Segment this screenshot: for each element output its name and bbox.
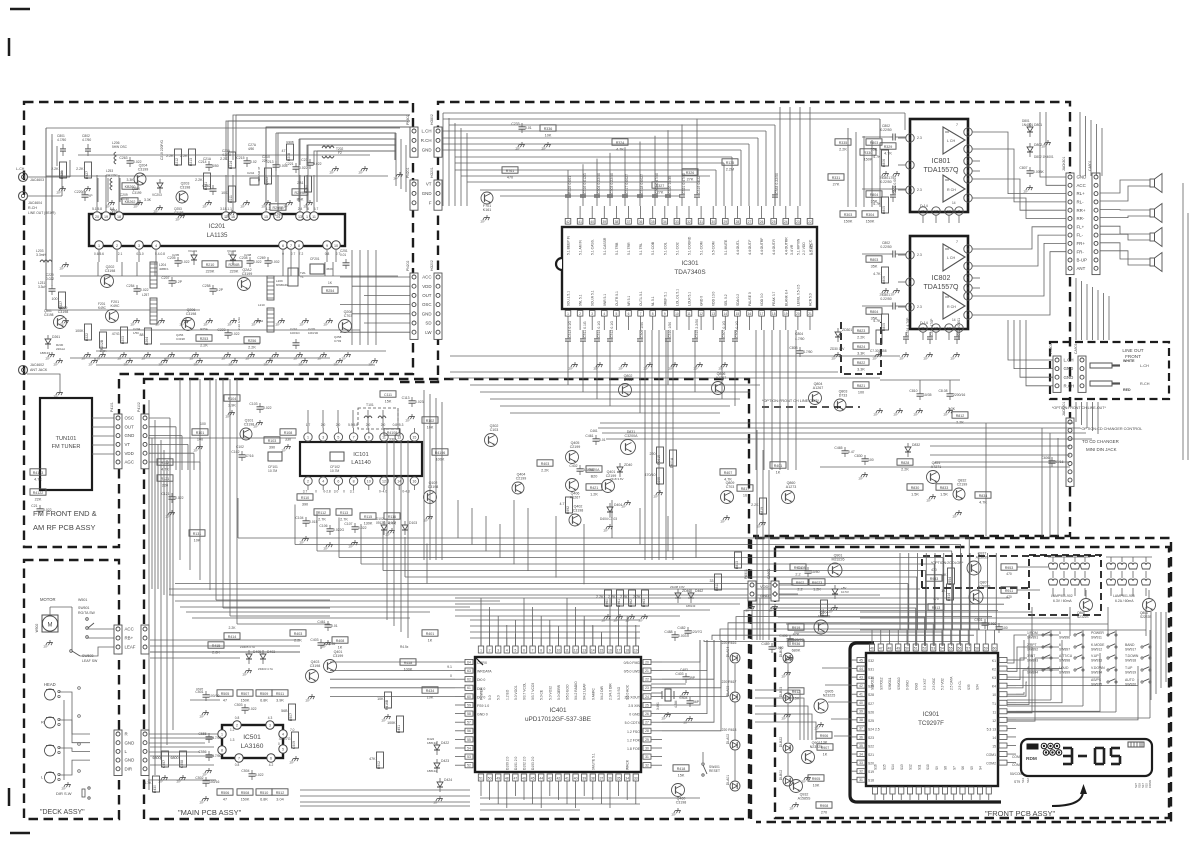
wire <box>237 498 239 538</box>
wire <box>760 598 1010 640</box>
svg-text:D802 1N4001: D802 1N4001 <box>1034 155 1054 159</box>
svg-text:47: 47 <box>879 647 883 651</box>
capacitor C465 <box>842 450 849 452</box>
diode D802 <box>1027 147 1033 152</box>
transistor Q905 <box>814 699 828 713</box>
connector JACK801 <box>1066 173 1074 275</box>
svg-text:20°: 20° <box>44 645 49 649</box>
IC801 pin 10 <box>945 207 953 215</box>
svg-text:3.3/255: 3.3/255 <box>583 468 594 472</box>
board outline LINE OUT FRONT <box>1050 342 1169 399</box>
svg-text:27K: 27K <box>833 182 840 186</box>
svg-text:14: 14 <box>952 201 956 205</box>
ground <box>1047 140 1049 143</box>
svg-text:RG/TA SW: RG/TA SW <box>78 611 96 615</box>
svg-text:3.9K: 3.9K <box>228 403 236 407</box>
capacitor C113 <box>409 400 416 402</box>
svg-text:C489: C489 <box>761 642 769 646</box>
IC301 pin 3 <box>589 311 595 317</box>
svg-text:S12: S12 <box>909 764 913 770</box>
resistor R9615 <box>657 447 664 463</box>
ground <box>234 358 236 361</box>
wire <box>917 553 919 630</box>
ground <box>787 712 789 715</box>
IC901 right pin 12 <box>999 760 1007 765</box>
svg-text:3: 3 <box>497 649 499 653</box>
svg-text:0.01: 0.01 <box>340 253 346 257</box>
wire <box>470 384 760 386</box>
svg-text:4.7K: 4.7K <box>161 467 169 471</box>
wires far right margin <box>1182 183 1184 460</box>
svg-text:COM1: COM1 <box>986 753 996 757</box>
ground <box>102 352 104 355</box>
svg-text:VC202: VC202 <box>227 249 237 253</box>
wire <box>639 346 641 413</box>
svg-text:*OPTION:2COLOR*: *OPTION:2COLOR* <box>931 561 964 565</box>
capacitor C319 <box>694 194 700 196</box>
wire <box>316 178 318 202</box>
IC801 pin 6 <box>964 175 972 183</box>
svg-text:10K: 10K <box>377 697 384 701</box>
svg-text:5.1 COM: 5.1 COM <box>700 241 704 255</box>
svg-text:C314 0.1G: C314 0.1G <box>597 321 601 338</box>
svg-text:C102: C102 <box>231 450 239 454</box>
svg-text:0: 0 <box>343 490 345 494</box>
svg-text:GND: GND <box>125 740 135 745</box>
svg-text:X401: X401 <box>656 702 660 710</box>
connector PA901 <box>748 581 756 601</box>
capacitor C254 <box>134 288 141 290</box>
svg-text:4500AM 47: 4500AM 47 <box>257 166 261 182</box>
svg-text:20°: 20° <box>434 801 439 805</box>
svg-text:1.2K: 1.2K <box>813 587 821 591</box>
svg-text:C810: C810 <box>909 389 917 393</box>
wire <box>609 638 611 646</box>
svg-text:DLB22: DLB22 <box>779 737 783 747</box>
IC901 bottom pin 8 <box>942 787 947 794</box>
svg-text:10K: 10K <box>275 212 282 216</box>
svg-text:R329: R329 <box>884 145 893 149</box>
svg-text:S36/O13: S36/O13 <box>871 677 875 690</box>
wire <box>532 607 534 646</box>
svg-text:20°: 20° <box>200 715 205 719</box>
resistor R256 <box>244 337 260 343</box>
svg-text:AUTO: AUTO <box>1125 678 1135 682</box>
wire <box>266 127 410 160</box>
wire <box>300 789 470 791</box>
wire <box>314 151 396 165</box>
IC901 pin 39 <box>857 709 865 714</box>
resistor R135 <box>722 159 738 165</box>
svg-text:SW501: SW501 <box>78 606 90 610</box>
svg-text:1K: 1K <box>942 573 947 577</box>
lamp pair L1-2 <box>1060 563 1069 569</box>
wires LED column <box>734 664 736 692</box>
IC401 pin 31 <box>643 754 651 759</box>
ground <box>287 444 289 447</box>
svg-text:2.2M: 2.2M <box>726 167 734 171</box>
ground <box>429 514 431 517</box>
svg-text:R821: R821 <box>857 384 866 388</box>
ground <box>878 352 880 355</box>
wire <box>825 684 851 686</box>
svg-text:20°: 20° <box>900 357 905 361</box>
IC401 pin 26 <box>643 711 651 716</box>
IC901 right pin 8 <box>999 726 1007 731</box>
ground <box>774 604 776 607</box>
wire <box>364 294 410 296</box>
svg-text:51: 51 <box>914 647 918 651</box>
transistor Q851 <box>927 471 940 484</box>
svg-text:IC802: IC802 <box>932 275 951 282</box>
svg-text:56P: 56P <box>693 700 700 704</box>
svg-text:9: 9 <box>664 312 666 316</box>
svg-text:33: 33 <box>675 220 679 224</box>
svg-text:7: 7 <box>532 649 534 653</box>
svg-text:4.7K: 4.7K <box>34 477 42 481</box>
svg-text:55: 55 <box>949 647 953 651</box>
svg-text:V.UP: V.UP <box>1091 654 1099 658</box>
diode D405 <box>246 654 252 659</box>
wire <box>480 797 700 799</box>
resistor R905 <box>808 775 824 781</box>
svg-text:R511: R511 <box>276 692 284 696</box>
svg-text:S28: S28 <box>868 693 874 697</box>
svg-text:6: 6 <box>1059 643 1061 647</box>
wire <box>980 235 1066 266</box>
svg-text:C483: C483 <box>680 668 688 672</box>
wire <box>540 638 542 646</box>
IC802 pin 12 <box>932 324 940 332</box>
wire <box>1081 402 1083 425</box>
svg-text:ZD46: ZD46 <box>682 589 690 593</box>
speaker SP1 <box>1150 179 1155 187</box>
diode D102 <box>381 525 387 530</box>
svg-text:0.023: 0.023 <box>415 400 424 404</box>
ground <box>364 166 366 169</box>
svg-text:CA903: CA903 <box>1074 344 1078 354</box>
wire <box>755 706 808 740</box>
svg-text:20°: 20° <box>669 367 674 371</box>
svg-text:2.2K: 2.2K <box>294 638 302 642</box>
wire <box>752 604 1004 640</box>
resistor R811 <box>715 574 722 590</box>
svg-text:0.003K: 0.003K <box>1033 170 1044 174</box>
IC101 pin 8 <box>349 477 357 485</box>
svg-text:0.022: 0.022 <box>299 166 308 170</box>
diode ZD40 <box>617 467 623 472</box>
RCA jack JAC4603 <box>19 173 28 182</box>
wire <box>382 531 384 571</box>
svg-text:IC901: IC901 <box>923 711 940 718</box>
wire <box>435 398 437 560</box>
svg-text:20°: 20° <box>304 205 309 209</box>
LED DLB03 <box>783 693 793 703</box>
wire <box>1008 320 1053 360</box>
IC401 pin 43 <box>547 774 552 781</box>
svg-text:13: 13 <box>582 649 586 653</box>
svg-text:2.2: 2.2 <box>795 572 800 576</box>
transistor Q209 <box>54 316 67 329</box>
svg-text:R407: R407 <box>724 471 733 475</box>
svg-text:LA1140: LA1140 <box>351 460 371 466</box>
IC IC201 LA1135 <box>89 214 345 246</box>
svg-text:13: 13 <box>298 215 302 219</box>
svg-text:7: 7 <box>290 244 292 248</box>
svg-text:2.3: 2.3 <box>917 305 922 309</box>
wire <box>442 149 741 151</box>
svg-text:4.7K: 4.7K <box>873 272 881 276</box>
ground <box>834 605 836 608</box>
svg-text:DLB04: DLB04 <box>779 647 783 657</box>
svg-text:C121: C121 <box>161 492 169 496</box>
resistor R592 <box>566 497 573 513</box>
svg-text:40: 40 <box>574 777 578 781</box>
wire <box>1149 630 1151 718</box>
IC802 pin 8 <box>964 284 972 292</box>
capacitor C269 <box>265 260 272 262</box>
capacitor C213 <box>273 164 280 166</box>
svg-text:220K: 220K <box>206 269 215 273</box>
svg-text:D100 2.0: D100 2.0 <box>505 756 509 770</box>
wire <box>786 624 933 646</box>
diode D <box>832 589 838 594</box>
svg-text:14: 14 <box>724 312 728 316</box>
capacitor C502 <box>203 780 210 782</box>
svg-text:C461: C461 <box>585 434 593 438</box>
wire <box>1007 682 1027 696</box>
IC201 pin 13 <box>296 212 305 221</box>
svg-text:20°: 20° <box>914 413 919 417</box>
svg-text:R805: R805 <box>882 323 886 331</box>
svg-text:7: 7 <box>640 312 642 316</box>
resistor R327 <box>652 182 668 188</box>
svg-text:6.7: 6.7 <box>314 207 319 211</box>
resistor D901A <box>670 450 677 466</box>
capacitor C504 <box>249 773 256 775</box>
wire <box>600 790 602 804</box>
svg-text:1.5K: 1.5K <box>911 492 919 496</box>
svg-text:R803: R803 <box>870 141 879 145</box>
svg-text:4: 4 <box>506 649 508 653</box>
svg-text:IC301: IC301 <box>681 260 698 267</box>
wire <box>527 508 529 571</box>
svg-text:2.2K: 2.2K <box>857 335 865 339</box>
svg-text:4.7/50: 4.7/50 <box>795 337 805 341</box>
wire <box>734 346 736 406</box>
svg-text:OUTR 5.1: OUTR 5.1 <box>615 291 619 306</box>
IC401 pin 18 <box>625 646 630 653</box>
svg-text:ANT JACK: ANT JACK <box>30 368 48 372</box>
svg-text:1N4001: 1N4001 <box>1022 123 1033 127</box>
wire <box>600 422 1074 424</box>
ground <box>139 200 141 203</box>
ground <box>323 352 325 355</box>
wire <box>1090 120 1092 176</box>
wire <box>667 130 669 190</box>
capacitor C <box>892 186 894 193</box>
resistor R828 <box>897 459 913 465</box>
capacitor C302 <box>652 194 658 196</box>
ground <box>958 510 960 513</box>
svg-text:20°: 20° <box>156 323 161 327</box>
svg-text:11: 11 <box>312 215 316 219</box>
svg-text:R103: R103 <box>268 439 277 443</box>
wire <box>514 634 516 646</box>
svg-text:3: 3 <box>958 210 960 214</box>
IC IC501 LA3160 <box>222 725 283 758</box>
svg-text:56: 56 <box>958 647 962 651</box>
wire <box>695 524 697 558</box>
wire <box>485 516 487 551</box>
wire <box>228 120 410 122</box>
svg-text:3.3K: 3.3K <box>144 198 152 202</box>
IC802 amp R CH <box>943 292 965 319</box>
wire <box>290 250 292 262</box>
svg-text:100: 100 <box>868 458 874 462</box>
svg-text:1/50: 1/50 <box>133 331 139 335</box>
transistor Q803 <box>834 399 846 411</box>
resistor R803 <box>866 256 882 262</box>
svg-text:C106: C106 <box>319 524 327 528</box>
wire <box>105 175 107 211</box>
ground <box>246 200 248 203</box>
svg-text:20°: 20° <box>204 323 209 327</box>
capacitor C314 <box>594 338 600 340</box>
svg-text:5.0 VOO1: 5.0 VOO1 <box>514 685 518 700</box>
svg-text:16: 16 <box>743 493 747 497</box>
ground <box>905 352 907 355</box>
resistor R507 <box>237 690 253 696</box>
svg-text:20°: 20° <box>815 727 820 731</box>
wire <box>1086 299 1088 301</box>
svg-text:R509: R509 <box>260 692 269 696</box>
IC901 pin 51 <box>913 644 918 651</box>
connector PN803 <box>1053 356 1061 392</box>
ground <box>208 768 210 771</box>
svg-text:C503: C503 <box>234 703 242 707</box>
wire <box>696 119 698 190</box>
transistor Q802 <box>619 384 632 397</box>
IC201 pin 9 <box>323 241 332 250</box>
capacitor C <box>343 262 350 264</box>
resistor R803 <box>866 139 882 145</box>
wire <box>592 625 594 646</box>
switch SW503 leaf <box>70 650 73 653</box>
svg-text:R914: R914 <box>947 593 951 601</box>
IC901 pin 59 <box>983 644 988 651</box>
wire <box>223 607 330 609</box>
resistor R509 <box>256 690 272 696</box>
svg-text:7: 7 <box>238 757 240 761</box>
resistor R826 <box>60 162 67 178</box>
IC401 pin 35 <box>616 774 621 781</box>
svg-text:2.2A 1/4A: 2.2A 1/4A <box>237 317 241 330</box>
wire <box>500 405 730 407</box>
IC201 pin 14 <box>274 212 283 221</box>
svg-text:20°: 20° <box>721 520 726 524</box>
svg-text:20°: 20° <box>60 267 65 271</box>
svg-text:6: 6 <box>967 295 969 299</box>
IC401 pin 14 <box>590 646 595 653</box>
wire <box>361 563 934 565</box>
wire <box>155 250 157 262</box>
svg-text:32: 32 <box>859 769 863 773</box>
wire bus mid lower rails <box>169 588 920 590</box>
svg-text:R211: R211 <box>229 195 233 203</box>
svg-text:4.7K: 4.7K <box>979 500 987 504</box>
wire <box>980 179 1066 210</box>
svg-text:SW898: SW898 <box>1059 659 1070 663</box>
wire <box>831 718 851 720</box>
wire <box>150 651 300 653</box>
IC301 pin 37 <box>626 219 632 225</box>
IC101 pin 3 <box>319 433 327 441</box>
IC801 pin 8 <box>964 167 972 175</box>
wire <box>930 445 1070 447</box>
wire <box>514 790 516 796</box>
IC501 pin 7 <box>235 754 243 762</box>
IC401 pin 9 <box>547 646 552 653</box>
lamp pair L1-1 <box>1049 563 1058 569</box>
svg-text:20°: 20° <box>382 719 387 723</box>
ground <box>762 520 764 523</box>
ground <box>161 318 163 321</box>
diode D801 <box>1027 127 1033 132</box>
IC301 pin 10 <box>674 311 680 317</box>
wire <box>575 607 577 646</box>
capacitor C323 <box>927 336 933 338</box>
wire <box>307 178 309 202</box>
wire <box>583 620 585 646</box>
svg-text:47/G: 47/G <box>112 332 120 336</box>
svg-text:9MUTE 5.1: 9MUTE 5.1 <box>591 753 595 770</box>
svg-text:SW911: SW911 <box>1091 636 1102 640</box>
IC802 pin 6 <box>964 292 972 300</box>
svg-text:13: 13 <box>397 436 401 440</box>
wire <box>235 178 237 202</box>
svg-text:44: 44 <box>539 777 543 781</box>
wire <box>489 607 491 646</box>
wire <box>1107 607 1109 636</box>
resistor R458 <box>400 659 416 665</box>
svg-text:11: 11 <box>992 710 996 714</box>
svg-text:46: 46 <box>522 777 526 781</box>
svg-text:20: 20 <box>645 660 649 664</box>
svg-text:TDA1557Q: TDA1557Q <box>923 167 959 174</box>
wire <box>295 544 961 546</box>
svg-text:47: 47 <box>514 777 518 781</box>
svg-text:2.2K: 2.2K <box>220 157 228 161</box>
svg-text:R905: R905 <box>812 777 821 781</box>
svg-text:1K: 1K <box>823 752 828 756</box>
IC301 pin 18 <box>771 311 777 317</box>
wire <box>300 801 470 803</box>
svg-text:1: 1 <box>567 312 569 316</box>
svg-text:5.1 BEEP IN: 5.1 BEEP IN <box>567 235 571 255</box>
wire <box>510 412 720 414</box>
capacitor C503 <box>242 707 249 709</box>
IC901 bottom pin 10 <box>960 787 965 794</box>
IC301 pin 13 <box>710 311 716 317</box>
diode D261 <box>45 339 51 344</box>
svg-text:9: 9 <box>368 436 370 440</box>
svg-text:7: 7 <box>956 288 958 292</box>
svg-text:K2: K2 <box>992 668 996 672</box>
svg-text:20°: 20° <box>594 367 599 371</box>
svg-text:20°: 20° <box>944 413 949 417</box>
IC201 pin 10 <box>332 241 341 250</box>
